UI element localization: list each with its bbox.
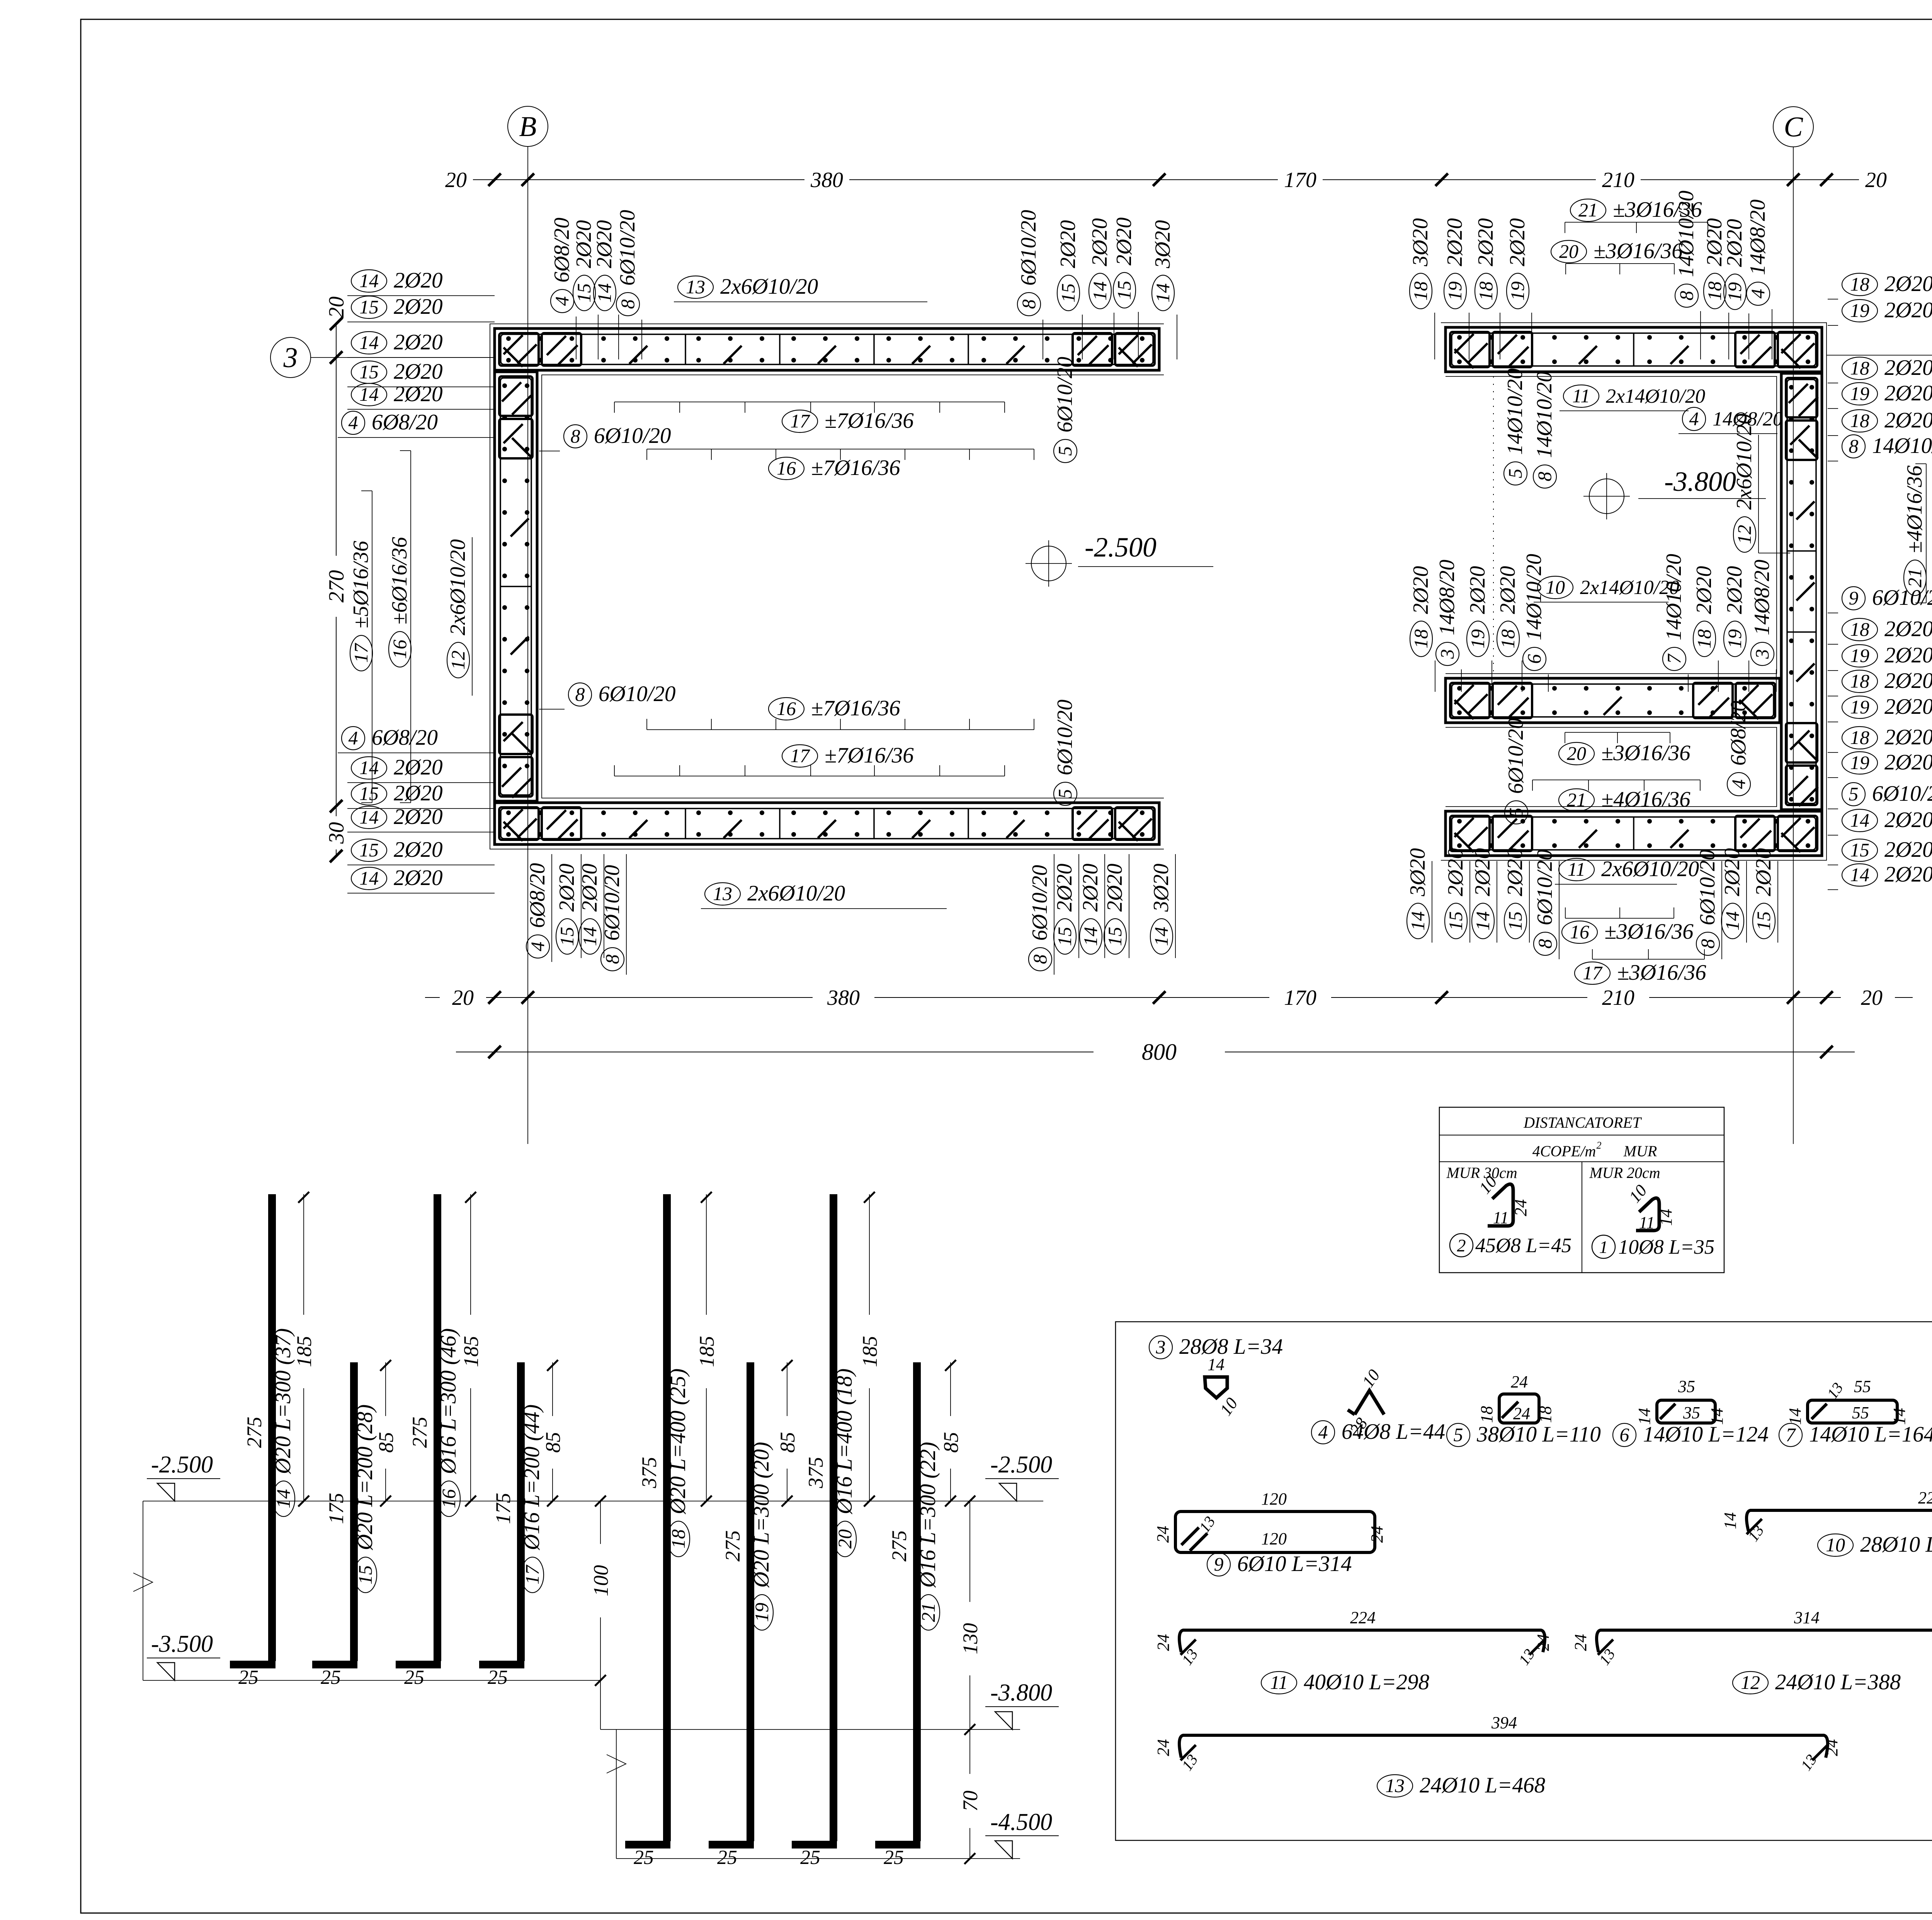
svg-text:24: 24	[1153, 1526, 1172, 1543]
svg-text:375: 375	[638, 1457, 661, 1489]
svg-text:2Ø20: 2Ø20	[1884, 669, 1932, 693]
svg-text:2x6Ø10/20: 2x6Ø10/20	[747, 881, 845, 906]
svg-text:185: 185	[858, 1336, 881, 1367]
svg-text:6Ø8/20: 6Ø8/20	[550, 218, 574, 283]
svg-text:15: 15	[359, 296, 379, 318]
svg-text:2: 2	[1597, 1140, 1602, 1151]
svg-text:55: 55	[1852, 1403, 1869, 1422]
svg-text:Ø20 L=300 (20): Ø20 L=300 (20)	[749, 1442, 774, 1588]
svg-text:24: 24	[1154, 1634, 1173, 1651]
svg-text:64Ø8 L=44: 64Ø8 L=44	[1342, 1420, 1445, 1444]
left plan rotated labels above top strip	[550, 210, 642, 359]
svg-text:6Ø10/20: 6Ø10/20	[1872, 781, 1932, 806]
svg-text:16: 16	[777, 457, 796, 479]
svg-text:14: 14	[359, 332, 379, 353]
svg-text:30: 30	[325, 822, 349, 844]
svg-text:±7Ø16/36: ±7Ø16/36	[811, 456, 900, 480]
svg-text:2x6Ø10/20: 2x6Ø10/20	[446, 539, 470, 635]
svg-text:170: 170	[1284, 168, 1316, 192]
svg-text:2Ø20: 2Ø20	[578, 864, 602, 912]
svg-text:2Ø20: 2Ø20	[1884, 408, 1932, 432]
svg-text:45Ø8 L=45: 45Ø8 L=45	[1475, 1234, 1571, 1257]
svg-text:14: 14	[359, 806, 379, 828]
svg-text:2Ø20: 2Ø20	[394, 330, 443, 354]
svg-text:13: 13	[686, 276, 705, 298]
distancator bar symbol 1	[1592, 1181, 1714, 1258]
distancator bar symbol 2	[1450, 1172, 1571, 1257]
svg-text:14: 14	[1150, 927, 1172, 946]
svg-text:10Ø8 L=35: 10Ø8 L=35	[1618, 1236, 1714, 1258]
svg-text:14Ø10/20: 14Ø10/20	[1522, 554, 1546, 640]
svg-text:13: 13	[713, 883, 732, 904]
svg-text:6Ø10/20: 6Ø10/20	[1504, 718, 1528, 794]
svg-text:MUR: MUR	[1623, 1142, 1657, 1160]
svg-text:20: 20	[1559, 240, 1578, 262]
svg-text:6: 6	[1523, 654, 1545, 664]
svg-text:8: 8	[1534, 939, 1556, 949]
svg-text:2Ø20: 2Ø20	[1496, 566, 1520, 614]
svg-text:2Ø20: 2Ø20	[1884, 862, 1932, 887]
right wall plan detail: bottom wall strip	[1446, 811, 1822, 856]
svg-text:2Ø20: 2Ø20	[394, 755, 443, 780]
svg-text:1: 1	[1599, 1237, 1608, 1257]
svg-text:14: 14	[359, 270, 379, 291]
bottom dimension 800	[456, 1039, 1855, 1065]
label 13 2x6Ø10/20 top	[674, 274, 927, 302]
svg-text:25: 25	[238, 1666, 259, 1689]
svg-text:224: 224	[1350, 1608, 1376, 1627]
svg-text:24: 24	[1534, 1634, 1553, 1651]
svg-text:14: 14	[594, 283, 615, 303]
left plan formwork offset lines	[490, 324, 1164, 849]
svg-text:6Ø10/20: 6Ø10/20	[594, 424, 671, 448]
svg-text:6Ø10/20: 6Ø10/20	[600, 865, 624, 941]
svg-text:100: 100	[589, 1565, 612, 1597]
svg-text:6Ø10/20: 6Ø10/20	[1017, 210, 1041, 286]
svg-text:6Ø10/20: 6Ø10/20	[1696, 849, 1719, 925]
svg-text:185: 185	[695, 1336, 718, 1367]
svg-text:14Ø10 L=164: 14Ø10 L=164	[1809, 1422, 1932, 1447]
bar shape 10	[1721, 1488, 1932, 1557]
svg-text:18: 18	[1850, 618, 1869, 640]
svg-text:15: 15	[1504, 911, 1526, 931]
svg-text:6Ø10/20: 6Ø10/20	[1053, 700, 1077, 775]
svg-text:2Ø20: 2Ø20	[394, 382, 443, 406]
svg-text:2Ø20: 2Ø20	[1884, 725, 1932, 749]
svg-text:8: 8	[617, 300, 638, 309]
svg-text:Ø20 L=200 (28): Ø20 L=200 (28)	[353, 1404, 377, 1551]
svg-text:14: 14	[1080, 927, 1101, 946]
svg-text:16: 16	[389, 640, 410, 659]
svg-text:14: 14	[1152, 283, 1173, 303]
svg-text:20: 20	[452, 986, 474, 1010]
svg-text:20: 20	[834, 1529, 855, 1549]
svg-text:19: 19	[1850, 300, 1869, 321]
svg-text:Ø16 L=200 (44): Ø16 L=200 (44)	[520, 1404, 544, 1551]
svg-text:17: 17	[521, 1564, 543, 1585]
svg-text:2x6Ø10/20: 2x6Ø10/20	[1732, 414, 1756, 510]
svg-text:13: 13	[1385, 1775, 1405, 1796]
svg-text:2x6Ø10/20: 2x6Ø10/20	[1601, 857, 1699, 881]
svg-text:2Ø20: 2Ø20	[394, 294, 443, 319]
svg-text:14Ø8/20: 14Ø8/20	[1435, 560, 1459, 635]
bracket 20 ±3Ø16/36 below middle strip	[1559, 732, 1690, 765]
svg-text:3: 3	[1156, 1336, 1166, 1358]
svg-text:18: 18	[1704, 281, 1725, 301]
svg-text:15: 15	[359, 361, 379, 383]
svg-text:375: 375	[804, 1457, 827, 1489]
svg-text:18: 18	[1477, 1406, 1496, 1423]
svg-text:14: 14	[359, 867, 379, 889]
svg-text:18: 18	[1536, 1406, 1555, 1423]
svg-text:17: 17	[350, 643, 372, 663]
svg-text:6Ø8/20: 6Ø8/20	[1726, 701, 1750, 766]
svg-text:6Ø8/20: 6Ø8/20	[372, 725, 438, 750]
svg-text:±5Ø16/36: ±5Ø16/36	[349, 541, 373, 628]
svg-text:24Ø10 L=468: 24Ø10 L=468	[1420, 1773, 1545, 1797]
svg-text:14: 14	[1656, 1209, 1675, 1226]
svg-text:20: 20	[1567, 742, 1586, 764]
svg-text:4: 4	[1689, 408, 1699, 429]
svg-text:185: 185	[293, 1336, 316, 1367]
svg-text:15: 15	[359, 783, 379, 804]
svg-text:9: 9	[1849, 587, 1859, 609]
svg-text:14Ø8/20: 14Ø8/20	[1750, 560, 1774, 635]
svg-text:28Ø8 L=34: 28Ø8 L=34	[1179, 1334, 1283, 1359]
svg-text:±3Ø16/36: ±3Ø16/36	[1604, 919, 1694, 944]
elevation step dimension 100	[589, 1496, 612, 1729]
svg-text:2Ø20: 2Ø20	[1884, 381, 1932, 405]
svg-text:2Ø20: 2Ø20	[1444, 848, 1468, 896]
elevation: vertical rebar 17	[479, 1360, 565, 1689]
svg-text:12: 12	[1733, 525, 1755, 544]
svg-text:4: 4	[551, 296, 573, 306]
svg-text:5: 5	[1504, 469, 1526, 478]
bar shape 12	[1571, 1608, 1932, 1694]
svg-text:18: 18	[1475, 281, 1497, 301]
svg-text:21: 21	[1904, 568, 1925, 587]
svg-text:14: 14	[579, 927, 600, 946]
svg-text:210: 210	[1602, 986, 1634, 1010]
svg-text:6Ø8/20: 6Ø8/20	[372, 410, 438, 434]
svg-text:6Ø10/20: 6Ø10/20	[1028, 865, 1052, 941]
svg-text:±3Ø16/36: ±3Ø16/36	[1594, 239, 1683, 263]
svg-text:±3Ø16/36: ±3Ø16/36	[1617, 960, 1706, 985]
svg-text:11: 11	[1572, 385, 1590, 407]
label 4 14Ø8/20	[1679, 407, 1783, 434]
svg-text:2Ø20: 2Ø20	[1752, 848, 1776, 896]
svg-text:5: 5	[1505, 808, 1527, 817]
svg-text:15: 15	[573, 283, 595, 303]
svg-text:2Ø20: 2Ø20	[1723, 219, 1747, 267]
svg-text:14Ø10/20: 14Ø10/20	[1662, 554, 1686, 640]
svg-text:24Ø10 L=388: 24Ø10 L=388	[1775, 1670, 1901, 1694]
svg-text:21: 21	[1578, 199, 1598, 221]
svg-text:±6Ø16/36: ±6Ø16/36	[388, 537, 412, 625]
svg-text:24: 24	[1513, 1404, 1530, 1423]
svg-text:-3.500: -3.500	[151, 1631, 213, 1657]
svg-text:2: 2	[1457, 1236, 1466, 1255]
svg-text:380: 380	[827, 986, 860, 1010]
elevation: vertical rebar 19	[709, 1360, 799, 1869]
svg-text:2Ø20: 2Ø20	[1505, 218, 1529, 266]
left vertical dimension 20/270/30	[325, 296, 349, 862]
svg-text:314: 314	[1794, 1608, 1820, 1627]
svg-text:2Ø20: 2Ø20	[555, 864, 579, 912]
svg-text:85: 85	[541, 1432, 565, 1453]
svg-text:2Ø20: 2Ø20	[394, 837, 443, 862]
svg-text:85: 85	[939, 1432, 963, 1453]
svg-text:15: 15	[1850, 839, 1869, 861]
svg-text:12: 12	[1741, 1671, 1760, 1693]
svg-text:19: 19	[1850, 752, 1869, 773]
svg-text:25: 25	[488, 1666, 508, 1689]
left wall plan detail: left wall strip	[495, 372, 537, 801]
svg-text:11: 11	[1568, 858, 1585, 880]
svg-text:185: 185	[459, 1336, 483, 1367]
svg-text:24: 24	[1154, 1739, 1173, 1756]
svg-text:275: 275	[243, 1417, 266, 1448]
svg-text:2Ø20: 2Ø20	[1884, 272, 1932, 296]
svg-text:2Ø20: 2Ø20	[1112, 218, 1136, 266]
DISTANCATORET table	[1439, 1107, 1724, 1273]
svg-text:2Ø20: 2Ø20	[394, 781, 443, 805]
svg-text:16: 16	[1570, 921, 1589, 943]
svg-text:18: 18	[1850, 670, 1869, 692]
svg-text:5: 5	[1849, 783, 1859, 805]
label 11 2x14Ø10/20	[1560, 385, 1705, 411]
elevation level line -2.500	[143, 1452, 1059, 1501]
svg-text:18: 18	[1497, 629, 1519, 649]
svg-text:10: 10	[1546, 576, 1565, 598]
svg-text:25: 25	[884, 1847, 904, 1869]
svg-text:2Ø20: 2Ø20	[1056, 220, 1080, 268]
right plan rotated labels above middle strip	[1409, 554, 1776, 692]
svg-text:3Ø20: 3Ø20	[1408, 218, 1432, 267]
label 5 6Ø10/20 bottom right rotated	[1053, 700, 1077, 805]
left wall plan detail: bottom wall strip	[495, 803, 1159, 844]
right plan formwork offset lines	[1441, 323, 1827, 860]
svg-text:18: 18	[1850, 273, 1869, 295]
svg-text:2Ø20: 2Ø20	[1103, 864, 1127, 912]
svg-text:40Ø10 L=298: 40Ø10 L=298	[1304, 1670, 1429, 1694]
svg-text:3: 3	[1436, 649, 1458, 659]
svg-text:14: 14	[1721, 911, 1743, 931]
svg-text:15: 15	[1057, 283, 1079, 303]
level mark -2.500 left plan	[1026, 532, 1213, 587]
svg-text:2Ø20: 2Ø20	[1720, 848, 1744, 896]
svg-text:10: 10	[1826, 1534, 1845, 1556]
svg-text:19: 19	[1850, 383, 1869, 404]
svg-text:25: 25	[800, 1847, 820, 1869]
svg-text:±7Ø16/36: ±7Ø16/36	[825, 743, 914, 768]
rotated brackets 21/20 right of right plan	[1903, 437, 1932, 626]
svg-text:DISTANCATORET: DISTANCATORET	[1523, 1114, 1642, 1131]
svg-text:14: 14	[272, 1489, 294, 1508]
svg-text:14: 14	[1089, 281, 1111, 301]
svg-text:2Ø20: 2Ø20	[1466, 566, 1490, 614]
svg-text:6Ø10/20: 6Ø10/20	[616, 210, 639, 286]
rotated labels 5 6Ø10/20 and 4 6Ø8/20 near middle strip	[1504, 701, 1750, 824]
svg-text:394: 394	[1491, 1713, 1517, 1732]
left plan rotated labels below bottom strip	[526, 854, 1175, 975]
right plan right-side label stack	[1828, 272, 1932, 890]
grid line 3 right bubble	[1827, 335, 1932, 375]
svg-text:Ø20 L=300 (37): Ø20 L=300 (37)	[271, 1328, 295, 1474]
svg-text:11: 11	[1270, 1671, 1288, 1693]
svg-text:4COPE/m: 4COPE/m	[1532, 1142, 1596, 1160]
svg-text:20: 20	[445, 168, 467, 192]
svg-text:28Ø10 L=278: 28Ø10 L=278	[1860, 1532, 1932, 1557]
svg-text:24: 24	[1822, 1739, 1841, 1756]
svg-text:2Ø20: 2Ø20	[1088, 218, 1112, 266]
grid line C	[1773, 107, 1813, 1144]
elevation level line -3.800	[600, 1680, 1059, 1729]
svg-text:2Ø20: 2Ø20	[1723, 566, 1747, 614]
svg-text:3: 3	[283, 342, 298, 374]
svg-text:275: 275	[721, 1530, 744, 1562]
svg-text:120: 120	[1261, 1489, 1287, 1508]
svg-text:2Ø20: 2Ø20	[1884, 837, 1932, 862]
svg-text:85: 85	[776, 1432, 799, 1453]
svg-text:B: B	[519, 111, 536, 143]
right wall plan detail: middle wall strip	[1446, 678, 1780, 723]
svg-text:14Ø10/20: 14Ø10/20	[1872, 434, 1932, 458]
svg-text:-2.500: -2.500	[990, 1452, 1052, 1478]
svg-text:2Ø20: 2Ø20	[1884, 356, 1932, 380]
svg-text:8: 8	[1018, 300, 1039, 309]
svg-text:8: 8	[1029, 955, 1051, 964]
svg-text:14Ø8/20: 14Ø8/20	[1746, 199, 1770, 275]
svg-text:3: 3	[1751, 649, 1773, 659]
svg-text:C: C	[1784, 111, 1803, 143]
svg-text:4: 4	[1728, 780, 1749, 789]
svg-text:25: 25	[404, 1666, 424, 1689]
svg-text:8: 8	[1675, 291, 1697, 301]
label 10 2x14Ø10/20	[1534, 576, 1679, 602]
svg-text:14Ø10 L=124: 14Ø10 L=124	[1643, 1422, 1769, 1447]
dimension bracket 16 ±7Ø16/36 top	[647, 449, 1034, 480]
svg-text:24: 24	[1511, 1199, 1530, 1216]
left wall plan detail: top wall strip	[495, 329, 1159, 370]
svg-text:Ø16 L=300 (22): Ø16 L=300 (22)	[916, 1442, 940, 1588]
svg-text:2Ø20: 2Ø20	[1884, 694, 1932, 719]
bar shape 4	[1311, 1366, 1445, 1444]
svg-text:19: 19	[1724, 629, 1745, 649]
svg-text:21: 21	[1567, 789, 1586, 810]
svg-text:4: 4	[1318, 1421, 1328, 1443]
svg-text:15: 15	[556, 927, 578, 946]
svg-text:2Ø20: 2Ø20	[592, 220, 616, 268]
bracket 17 ±3Ø16/36 bottom right plan	[1575, 949, 1706, 985]
svg-text:6: 6	[1620, 1424, 1629, 1445]
elevation level line -3.500	[133, 1501, 600, 1680]
elevation dims 130 and 70	[959, 1496, 982, 1864]
svg-text:2Ø20: 2Ø20	[1053, 864, 1077, 912]
svg-text:6Ø10 L=314: 6Ø10 L=314	[1237, 1552, 1352, 1576]
svg-text:19: 19	[1444, 281, 1466, 301]
svg-text:2Ø20: 2Ø20	[1409, 566, 1433, 614]
bar shape 7	[1779, 1377, 1932, 1447]
bracket 21 ±4Ø16/36 below middle strip	[1532, 780, 1700, 812]
svg-text:Ø20 L=400 (25): Ø20 L=400 (25)	[666, 1369, 690, 1515]
bar shape 13	[1154, 1713, 1841, 1797]
svg-text:11: 11	[1639, 1213, 1655, 1232]
svg-text:7: 7	[1663, 654, 1685, 664]
label 13 2x6Ø10/20 bottom	[701, 881, 947, 909]
elevation: vertical rebar 15	[312, 1360, 398, 1689]
svg-text:±4Ø16/36: ±4Ø16/36	[1601, 787, 1690, 812]
svg-text:25: 25	[321, 1666, 341, 1689]
svg-text:35: 35	[1683, 1403, 1700, 1422]
svg-text:170: 170	[1284, 986, 1316, 1010]
svg-text:18: 18	[667, 1529, 689, 1549]
bracket 16 ±3Ø16/36 bottom right plan	[1562, 907, 1694, 944]
svg-text:15: 15	[1445, 911, 1466, 931]
svg-text:20: 20	[1865, 168, 1887, 192]
svg-text:-4.500: -4.500	[990, 1809, 1052, 1835]
svg-text:2Ø20: 2Ø20	[1884, 617, 1932, 641]
left bracket 17 ±5Ø16/36 rotated	[349, 491, 373, 803]
svg-text:19: 19	[1724, 282, 1745, 301]
svg-text:19: 19	[751, 1603, 772, 1622]
svg-text:2Ø20: 2Ø20	[1471, 848, 1495, 896]
svg-text:2x6Ø10/20: 2x6Ø10/20	[720, 274, 818, 299]
bar shape 11	[1154, 1608, 1553, 1694]
svg-text:4: 4	[1747, 289, 1769, 299]
svg-text:18: 18	[1850, 410, 1869, 431]
svg-text:19: 19	[1850, 696, 1869, 718]
svg-text:3Ø20: 3Ø20	[1406, 848, 1430, 897]
svg-text:2Ø20: 2Ø20	[1692, 566, 1716, 614]
bar shape 9	[1153, 1489, 1386, 1576]
rotated labels 5/8 14Ø10/20	[1503, 368, 1556, 488]
elevation: vertical rebar 16	[396, 1192, 483, 1689]
svg-text:14: 14	[1786, 1408, 1804, 1425]
top dimension chain 20/380/170/210/20	[445, 168, 1887, 192]
svg-text:17: 17	[1583, 962, 1603, 984]
svg-text:16: 16	[438, 1489, 459, 1508]
svg-text:25: 25	[634, 1847, 654, 1869]
svg-text:210: 210	[1602, 168, 1634, 192]
svg-text:24: 24	[1571, 1634, 1590, 1651]
svg-text:20: 20	[325, 296, 349, 318]
svg-text:2Ø20: 2Ø20	[1884, 808, 1932, 832]
svg-text:2x14Ø10/20: 2x14Ø10/20	[1606, 385, 1705, 407]
right wall plan detail: right wall strip	[1781, 373, 1822, 810]
svg-text:14Ø10/20: 14Ø10/20	[1503, 368, 1527, 455]
left plan annotation labels: left bottom stack	[338, 682, 676, 893]
svg-text:85: 85	[374, 1432, 398, 1453]
bar shape 6	[1613, 1377, 1769, 1447]
dimension bracket 16 ±7Ø16/36 bottom	[647, 696, 1034, 730]
svg-text:14: 14	[1472, 911, 1493, 931]
svg-text:18: 18	[1410, 281, 1431, 301]
svg-text:18: 18	[1410, 629, 1432, 649]
svg-text:8: 8	[571, 425, 580, 447]
right plan rotated labels above top strip left	[1408, 218, 1532, 359]
svg-text:24: 24	[1511, 1372, 1528, 1391]
svg-text:21: 21	[917, 1603, 939, 1622]
svg-text:38Ø10 L=110: 38Ø10 L=110	[1476, 1422, 1601, 1447]
svg-text:70: 70	[959, 1791, 982, 1811]
svg-text:6Ø10/20: 6Ø10/20	[1053, 357, 1077, 432]
svg-text:224: 224	[1918, 1488, 1932, 1507]
svg-text:5: 5	[1454, 1424, 1463, 1445]
left label 12 2x6Ø10/20 rotated	[446, 537, 472, 696]
svg-text:120: 120	[1261, 1529, 1287, 1548]
svg-text:14: 14	[1721, 1512, 1740, 1529]
